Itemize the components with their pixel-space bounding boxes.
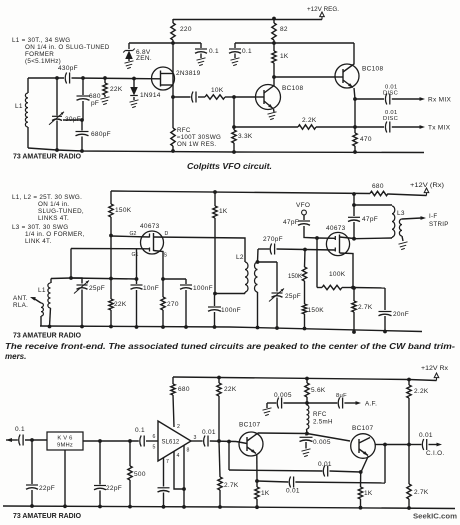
svg-text:SLUG-TUNED,: SLUG-TUNED,: [38, 208, 84, 215]
svg-text:6: 6: [153, 434, 156, 440]
svg-text:LINKS 4T.: LINKS 4T.: [38, 215, 69, 222]
svg-text:100nF: 100nF: [193, 285, 213, 292]
svg-text:2.7K: 2.7K: [358, 304, 373, 311]
svg-text:9MHz: 9MHz: [57, 443, 73, 449]
svg-text:0.1: 0.1: [135, 427, 145, 434]
svg-text:L1, L2 = 25T. 30 SWG.: L1, L2 = 25T. 30 SWG.: [12, 194, 82, 201]
svg-text:G1: G1: [132, 252, 139, 258]
svg-text:+12V REG.: +12V REG.: [307, 6, 339, 13]
svg-text:LINK 4T.: LINK 4T.: [25, 238, 52, 245]
svg-text:L2: L2: [236, 254, 244, 261]
svg-text:500: 500: [134, 471, 146, 478]
svg-text:DISC: DISC: [383, 91, 398, 97]
svg-text:680: 680: [178, 386, 190, 393]
svg-text:5.6K: 5.6K: [311, 387, 326, 394]
svg-text:680: 680: [372, 183, 384, 190]
svg-text:7: 7: [166, 459, 169, 465]
svg-text:40673: 40673: [326, 225, 346, 232]
svg-text:K V 6: K V 6: [57, 436, 72, 442]
svg-text:40673: 40673: [140, 223, 160, 230]
svg-text:0.01: 0.01: [419, 432, 433, 439]
svg-text:0.005: 0.005: [274, 392, 292, 399]
svg-text:BC107: BC107: [352, 425, 373, 432]
svg-text:10K: 10K: [211, 87, 224, 94]
svg-text:10nF: 10nF: [143, 285, 159, 292]
svg-text:4: 4: [177, 453, 180, 459]
svg-text:150K: 150K: [288, 273, 303, 280]
svg-text:220: 220: [180, 26, 192, 33]
svg-text:430pF: 430pF: [58, 65, 78, 72]
svg-text:≈100T 30SWG: ≈100T 30SWG: [177, 134, 221, 141]
svg-text:270: 270: [167, 301, 179, 308]
svg-text:Tx MIX: Tx MIX: [428, 125, 451, 132]
svg-text:680pF: 680pF: [91, 131, 111, 138]
svg-text:1/4 in. O FORMER,: 1/4 in. O FORMER,: [25, 231, 85, 238]
svg-text:270pF: 270pF: [263, 236, 283, 243]
svg-text:RLA.: RLA.: [13, 302, 28, 309]
svg-text:2.2K: 2.2K: [414, 388, 429, 395]
svg-text:0.1: 0.1: [242, 48, 252, 55]
svg-text:22K: 22K: [224, 386, 237, 393]
svg-text:22K: 22K: [110, 86, 123, 93]
svg-text:470: 470: [360, 136, 372, 143]
svg-text:1K: 1K: [219, 208, 228, 215]
svg-text:22K: 22K: [114, 301, 127, 308]
svg-text:150K: 150K: [308, 307, 325, 314]
svg-text:(5<5.1MHz): (5<5.1MHz): [25, 58, 61, 65]
svg-text:SL612: SL612: [162, 440, 180, 446]
svg-text:A.F.: A.F.: [365, 401, 377, 408]
svg-text:22pF: 22pF: [39, 485, 55, 492]
svg-text:L3 = 30T. 30 SWG: L3 = 30T. 30 SWG: [12, 224, 68, 231]
svg-text:73 AMATEUR RADIO: 73 AMATEUR RADIO: [13, 331, 81, 340]
svg-text:G2: G2: [130, 231, 137, 237]
svg-text:3: 3: [194, 435, 197, 441]
svg-text:RFC: RFC: [177, 127, 191, 134]
svg-text:2: 2: [177, 424, 180, 430]
svg-text:0.01: 0.01: [318, 461, 332, 468]
svg-text:8μF: 8μF: [336, 393, 347, 399]
svg-text:0.01: 0.01: [202, 429, 216, 436]
svg-text:L1 = 30T., 34 SWG: L1 = 30T., 34 SWG: [12, 37, 70, 44]
svg-text:1K: 1K: [261, 490, 270, 497]
svg-text:D: D: [165, 231, 169, 237]
svg-text:1N914: 1N914: [140, 92, 161, 99]
svg-text:Colpitts VFO circuit.: Colpitts VFO circuit.: [187, 162, 272, 171]
svg-text:25pF: 25pF: [285, 293, 301, 300]
svg-text:+12V (Rx): +12V (Rx): [410, 182, 444, 189]
svg-text:ON 1/4 in.: ON 1/4 in.: [38, 201, 69, 208]
svg-text:I-F: I-F: [429, 213, 437, 220]
svg-text:2.7K: 2.7K: [414, 489, 429, 496]
svg-text:150K: 150K: [115, 207, 132, 214]
svg-text:ON 1/4 in. O SLUG-TUNED: ON 1/4 in. O SLUG-TUNED: [25, 44, 110, 51]
svg-text:1K: 1K: [280, 53, 289, 60]
svg-text:22pF: 22pF: [106, 485, 122, 492]
svg-text:680: 680: [89, 93, 101, 100]
svg-text:100nF: 100nF: [221, 307, 241, 314]
svg-text:47pF: 47pF: [283, 219, 299, 226]
svg-text:The receive front-end. The ass: The receive front-end. The associated tu…: [5, 342, 455, 351]
svg-text:2.5mH: 2.5mH: [313, 419, 333, 426]
svg-text:ON 1W RES.: ON 1W RES.: [177, 141, 216, 148]
svg-text:C.I.O.: C.I.O.: [426, 450, 445, 457]
svg-text:Rx MIX: Rx MIX: [428, 97, 451, 104]
svg-text:3.3K: 3.3K: [238, 133, 253, 140]
svg-text:+12V Rx: +12V Rx: [421, 365, 449, 372]
svg-text:1K: 1K: [364, 490, 373, 497]
svg-text:2.2K: 2.2K: [302, 117, 317, 124]
svg-text:RFC: RFC: [313, 411, 327, 418]
svg-text:S: S: [164, 253, 168, 259]
svg-text:25pF: 25pF: [89, 285, 105, 292]
svg-text:0.1: 0.1: [209, 48, 219, 55]
svg-text:0.01: 0.01: [286, 488, 300, 495]
svg-text:DISC: DISC: [383, 116, 398, 122]
svg-text:0.005: 0.005: [313, 439, 331, 446]
svg-text:BC108: BC108: [282, 85, 303, 92]
svg-text:47pF: 47pF: [362, 216, 378, 223]
svg-text:FORMER: FORMER: [25, 51, 54, 58]
svg-text:73 AMATEUR RADIO: 73 AMATEUR RADIO: [13, 511, 81, 520]
svg-text:L1: L1: [15, 103, 23, 110]
svg-text:5: 5: [153, 445, 156, 451]
svg-text:BC108: BC108: [362, 66, 383, 73]
svg-text:0.1: 0.1: [15, 426, 25, 433]
svg-text:L1: L1: [38, 287, 46, 294]
svg-text:73 AMATEUR RADIO: 73 AMATEUR RADIO: [13, 152, 81, 161]
svg-text:BC107: BC107: [239, 422, 260, 429]
svg-text:pF: pF: [91, 100, 99, 107]
svg-text:20nF: 20nF: [393, 311, 409, 318]
svg-text:mers.: mers.: [5, 352, 26, 361]
svg-text:2.7K: 2.7K: [224, 482, 239, 489]
svg-text:SeekIC.com: SeekIC.com: [413, 512, 457, 521]
svg-text:8: 8: [187, 448, 190, 454]
svg-text:ZEN.: ZEN.: [136, 55, 152, 62]
svg-text:ANT.: ANT.: [13, 295, 28, 302]
svg-text:2N3819: 2N3819: [176, 70, 201, 77]
svg-text:82: 82: [280, 26, 288, 33]
svg-text:100K: 100K: [329, 271, 346, 278]
svg-text:STRIP: STRIP: [429, 221, 449, 228]
svg-text:VFO: VFO: [296, 202, 310, 209]
svg-text:L3: L3: [397, 210, 405, 217]
